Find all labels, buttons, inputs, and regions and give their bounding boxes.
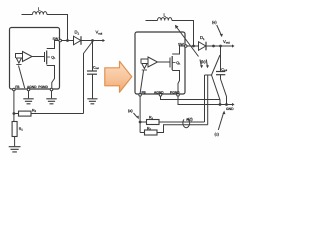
wire FB to R3 xyxy=(140,132,144,134)
wire input left xyxy=(22,14,33,16)
node SW junction right xyxy=(192,45,195,48)
wire riser B xyxy=(207,76,209,125)
wire inductor to SW node xyxy=(47,15,68,40)
pin PGND right xyxy=(177,94,180,97)
svg-text:L: L xyxy=(38,7,41,12)
node Vout xyxy=(91,39,94,42)
wire bend diag to GND node xyxy=(212,75,221,104)
resistor R1 xyxy=(12,122,17,137)
pin PGND xyxy=(50,88,53,91)
annotation arrow d swap xyxy=(183,119,190,128)
resistor R3 xyxy=(145,130,158,135)
wire Cout drop right xyxy=(220,46,222,72)
wire bend diag to vout wire xyxy=(212,55,221,75)
wire amp input loop right xyxy=(141,59,148,64)
wire diode to Vout right xyxy=(207,45,233,47)
svg-text:PGND: PGND xyxy=(170,91,180,95)
svg-text:D1: D1 xyxy=(75,30,80,36)
wire Cout to ground xyxy=(92,74,94,98)
svg-text:D1: D1 xyxy=(200,35,205,41)
annotation arrow e xyxy=(217,25,221,35)
wire inductor to SW node right xyxy=(172,21,194,46)
transistor Q2 xyxy=(169,58,171,68)
ground AGND xyxy=(23,99,33,104)
svg-text:SW: SW xyxy=(178,42,184,46)
node GND 1 xyxy=(219,103,222,106)
wire feedback diagonal xyxy=(84,42,93,114)
wire SW to diode right xyxy=(187,45,199,47)
pin FB right xyxy=(139,94,142,97)
wire reference to FB right xyxy=(140,71,143,94)
wire FB node to R2 xyxy=(14,113,19,115)
wire R3 loop to riser B xyxy=(157,125,208,133)
reference V1 xyxy=(16,58,21,63)
wire GND arrowhead xyxy=(232,103,235,106)
annotation arrow a xyxy=(134,113,138,117)
svg-text:Cout: Cout xyxy=(93,66,99,71)
op-amp U1a xyxy=(23,52,33,62)
capacitor Cout xyxy=(87,70,97,72)
svg-text:Cout: Cout xyxy=(221,68,227,73)
wire PGND to ground xyxy=(51,91,53,99)
wire amp input loop xyxy=(16,54,23,59)
capacitor Cout2 xyxy=(216,71,225,73)
wire Vout arrowhead right xyxy=(232,44,235,47)
svg-text:R2: R2 xyxy=(32,108,37,113)
inductor L1 xyxy=(33,12,47,15)
svg-text:Vout: Vout xyxy=(96,30,103,36)
IC U2 xyxy=(135,32,185,94)
resistor R4 xyxy=(147,120,160,125)
diode D1 xyxy=(74,36,81,45)
wire input right xyxy=(146,20,158,22)
wire R1 to ground xyxy=(14,137,16,147)
wire FB node to R4 xyxy=(140,121,146,123)
pin SW xyxy=(59,39,62,42)
svg-text:R1: R1 xyxy=(19,127,24,132)
svg-text:L: L xyxy=(164,12,167,17)
svg-text:(d): (d) xyxy=(188,118,193,122)
svg-text:R1: R1 xyxy=(147,127,152,132)
resistor R2 xyxy=(19,111,32,116)
annotation arrow b left xyxy=(200,60,201,67)
ground Cout xyxy=(87,99,97,104)
svg-text:(b): (b) xyxy=(201,60,206,64)
svg-text:R2: R2 xyxy=(149,116,154,121)
annotation arrow b right xyxy=(206,60,207,67)
annotation arrow b long xyxy=(177,27,199,57)
svg-text:Vout: Vout xyxy=(223,39,230,45)
arrow transform orange xyxy=(105,61,132,92)
inductor L2 xyxy=(158,18,172,21)
svg-text:Q₁: Q₁ xyxy=(176,61,181,65)
svg-text:Q₁: Q₁ xyxy=(51,55,56,59)
wire zener bend xyxy=(205,74,212,76)
node Vout right xyxy=(219,45,222,48)
pin AGND xyxy=(27,88,30,91)
diode D2 xyxy=(199,42,206,51)
node FB divider right xyxy=(139,121,142,124)
wire riser A xyxy=(204,75,206,122)
wire Cout2 bottom xyxy=(220,75,222,79)
wire SW to diode xyxy=(62,40,74,42)
node GND 2 xyxy=(225,103,228,106)
svg-text:PGND: PGND xyxy=(38,85,48,89)
wire PGND GND rail xyxy=(178,96,233,104)
wire FB down right xyxy=(139,96,141,132)
svg-text:SW: SW xyxy=(53,37,59,41)
wire Vout arrowhead xyxy=(103,39,106,42)
wire diode to Vout xyxy=(82,40,104,42)
svg-text:(a): (a) xyxy=(128,109,133,113)
wire Cout2 diagonal to GND rail xyxy=(221,79,227,104)
annotation arrow c xyxy=(218,113,223,130)
svg-text:AGND: AGND xyxy=(27,85,37,89)
wire amp output right xyxy=(158,61,171,63)
wire reference to FB xyxy=(19,66,25,89)
svg-text:(e): (e) xyxy=(212,21,217,25)
pin SW right xyxy=(184,45,187,48)
op-amp U2a xyxy=(148,57,158,67)
wire R4 to riser A xyxy=(159,121,205,123)
pin AGND right xyxy=(159,94,162,97)
ground PGND xyxy=(46,99,56,104)
node SW junction xyxy=(66,39,69,42)
svg-text:GND: GND xyxy=(226,107,234,111)
transistor Q1 xyxy=(44,52,46,62)
wire AGND to ground xyxy=(28,91,30,99)
wire amp output xyxy=(32,56,45,58)
node D-C junction xyxy=(212,45,215,48)
reference V2 xyxy=(142,64,147,69)
IC U1 xyxy=(10,28,60,90)
wire FB down xyxy=(13,91,15,122)
node FB divider xyxy=(13,112,16,115)
wire R2 to feedback riser xyxy=(31,113,84,115)
wire Cout drop xyxy=(92,41,94,72)
pin FB xyxy=(13,88,16,91)
svg-text:AGND: AGND xyxy=(154,91,164,95)
ground R1 xyxy=(9,147,21,152)
svg-text:(c): (c) xyxy=(215,133,220,137)
wire AGND rail right xyxy=(161,95,221,99)
